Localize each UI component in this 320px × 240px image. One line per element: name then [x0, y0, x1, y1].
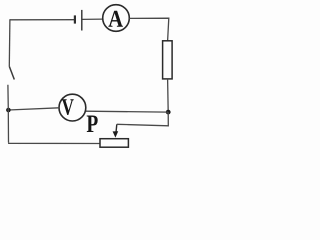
wire left lower (switch contact down through junction to bottom corner) [7, 85, 10, 143]
rheostat P body [100, 139, 128, 148]
node right junction [166, 110, 171, 115]
label P [87, 116, 98, 133]
rheostat wiper arrow [113, 124, 119, 137]
wire bottom (to rheostat left terminal) [9, 142, 101, 143]
wire left upper (down from top corner to switch) [8, 19, 11, 66]
wire top-left (battery negative lead) [10, 19, 74, 21]
resistor R [163, 41, 173, 79]
wire wiper to right vertical [117, 112, 169, 126]
wire voltmeter left lead [8, 108, 59, 110]
wire resistor to right junction [167, 79, 170, 112]
wire voltmeter right lead [86, 110, 168, 113]
ammeter A [103, 5, 130, 32]
wire battery to ammeter [82, 18, 102, 20]
switch S blade [9, 66, 14, 79]
node left junction [6, 108, 11, 113]
battery cell [75, 10, 82, 31]
voltmeter V [59, 94, 86, 121]
wire ammeter to top-right corner and down to resistor [129, 18, 168, 41]
